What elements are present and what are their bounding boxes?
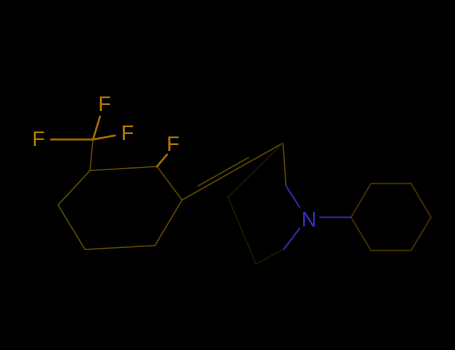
svg-text:N: N	[301, 209, 316, 232]
svg-text:F: F	[167, 133, 180, 156]
svg-text:F: F	[32, 128, 45, 151]
svg-text:F: F	[121, 122, 134, 145]
svg-text:F: F	[98, 93, 111, 116]
